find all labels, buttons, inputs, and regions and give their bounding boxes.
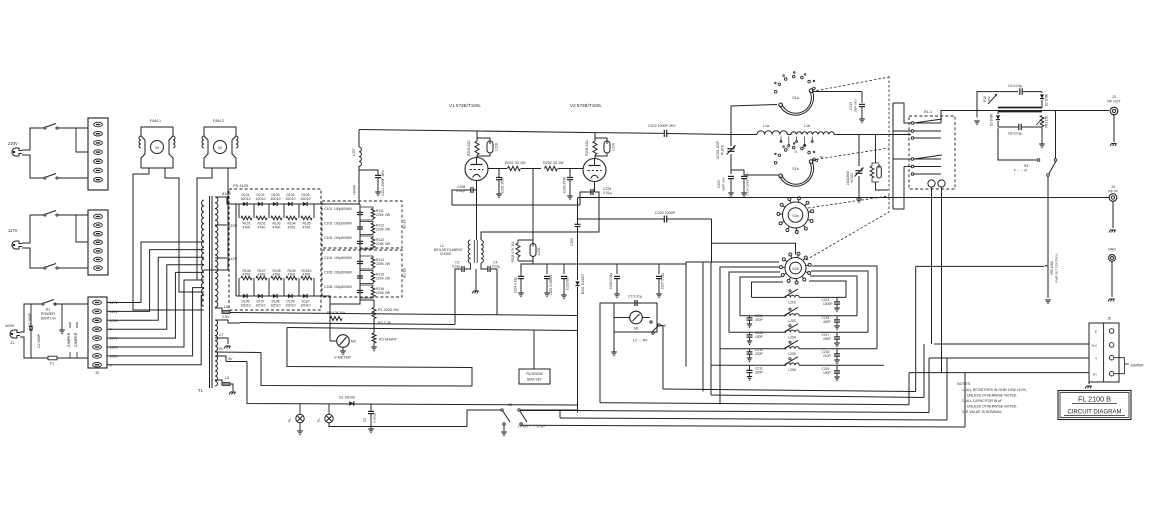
wire tank right loop 4	[812, 266, 877, 349]
svg-text:C204 0.01µ: C204 0.01µ	[514, 277, 518, 294]
svg-text:C205: C205	[570, 238, 574, 246]
svg-text:0.01µ: 0.01µ	[452, 265, 460, 269]
switch S 117V upper	[44, 211, 58, 217]
svg-text:100µ500WV: 100µ500WV	[334, 285, 353, 289]
tank capacitors right C213 C218 C217 C216 C219	[822, 297, 841, 380]
svg-text:GND: GND	[1108, 248, 1116, 252]
svg-text:FAN 1: FAN 1	[150, 118, 162, 123]
svg-text:C2 600P: C2 600P	[37, 333, 41, 348]
svg-text:200P: 200P	[755, 371, 764, 375]
svg-text:0.01µ: 0.01µ	[603, 191, 612, 195]
terminal strip J2	[88, 297, 107, 375]
svg-text:470K: 470K	[288, 273, 297, 277]
svg-text:117V: 117V	[8, 228, 18, 233]
J5 jumper bracket	[1114, 358, 1144, 374]
resistors R106-R110	[239, 269, 314, 296]
wire tank left loop 1	[752, 282, 784, 297]
T1 label	[198, 388, 204, 393]
svg-text:400P: 400P	[823, 320, 832, 324]
svg-text:S4: S4	[1024, 164, 1028, 168]
T1 HV bottom fuse 1A	[215, 305, 230, 314]
svg-text:0.005µ: 0.005µ	[373, 413, 377, 423]
svg-text:C7 0.01µ: C7 0.01µ	[628, 295, 642, 299]
svg-text:220K 2W: 220K 2W	[376, 291, 391, 295]
resistor R1 200 2W	[360, 300, 399, 319]
fuse F1	[44, 356, 88, 365]
choke L2 bifilar	[434, 240, 483, 263]
wire HT return run	[247, 362, 577, 406]
svg-text:JUMPER: JUMPER	[74, 332, 78, 347]
connector J5	[1089, 317, 1119, 383]
svg-text:C105: C105	[324, 271, 332, 275]
switch S4 F-R	[998, 111, 1057, 198]
220V AC plug	[8, 141, 22, 156]
svg-text:C223: C223	[717, 180, 721, 188]
svg-text:C210 60P: C210 60P	[566, 276, 570, 290]
ground meter	[611, 332, 617, 356]
svg-text:C224 1000P 5KV: C224 1000P 5KV	[746, 172, 750, 195]
terminal strip TB1	[88, 118, 108, 190]
svg-text:RF IN: RF IN	[1108, 190, 1118, 194]
svg-text:15: 15	[794, 150, 798, 154]
svg-text:V-METER: V-METER	[334, 356, 351, 360]
svg-text:J5: J5	[1107, 317, 1111, 321]
wire bias node	[521, 261, 580, 272]
capacitor C9 0.01u	[1008, 84, 1022, 95]
wire filament run A	[240, 323, 455, 325]
svg-text:S1: S1	[46, 308, 51, 312]
diode D2 1N60	[1040, 92, 1049, 108]
wire J5 pin4	[929, 357, 1089, 359]
switch S1a	[774, 72, 815, 116]
svg-text:JUMPER: JUMPER	[1130, 364, 1144, 368]
wire rail A	[663, 266, 1044, 391]
svg-text:S2a: S2a	[792, 214, 798, 218]
wire J5 RY	[909, 372, 1089, 374]
svg-text:J4: J4	[1111, 185, 1115, 189]
svg-text:OPEN ←→ STBY: OPEN ←→ STBY	[518, 425, 546, 429]
svg-text:R4 300ΩW: R4 300ΩW	[526, 372, 543, 376]
svg-text:L206: L206	[788, 368, 796, 372]
switch S1b	[774, 143, 815, 187]
svg-text:SWITCH: SWITCH	[41, 317, 56, 321]
wire heater loop	[261, 328, 577, 387]
svg-text:BU-1B: BU-1B	[403, 268, 407, 277]
title box	[1058, 391, 1131, 420]
svg-text:C8 0.01µ: C8 0.01µ	[1008, 132, 1022, 136]
svg-text:10D10: 10D10	[271, 304, 281, 308]
svg-text:R2 2.2K: R2 2.2K	[378, 321, 392, 325]
svg-text:10D10: 10D10	[286, 197, 296, 201]
capacitor bank box lower	[322, 250, 407, 297]
svg-text:220P: 220P	[755, 352, 764, 356]
mechanical link dashed	[806, 76, 889, 260]
svg-text:C222 1000P 3KV: C222 1000P 3KV	[648, 124, 676, 128]
capacitor C204 0.01u	[514, 272, 525, 297]
wire tank left loop 2	[740, 277, 781, 316]
resistor R205 22ohm	[467, 131, 479, 158]
svg-text:L208: L208	[495, 143, 499, 151]
svg-text:R3 SHUNT: R3 SHUNT	[379, 338, 398, 342]
svg-text:D1 10D43: D1 10D43	[339, 396, 355, 400]
wire staircase J2 to T1 primary	[107, 242, 204, 365]
svg-text:L204: L204	[788, 335, 796, 339]
svg-text:470K: 470K	[273, 226, 282, 230]
wire tank left outer	[703, 262, 711, 392]
svg-text:3. R VALUE IS NOMINAL.: 3. R VALUE IS NOMINAL.	[962, 410, 1003, 414]
capacitor C sense plate	[812, 92, 865, 123]
capacitor C4 0.01u	[481, 261, 500, 273]
svg-text:UNLESS OTHERWISE NOTED.: UNLESS OTHERWISE NOTED.	[967, 405, 1017, 409]
capacitors C101-C103	[324, 206, 363, 249]
svg-text:810V: 810V	[222, 191, 231, 196]
capacitor C225 0.01u	[481, 182, 612, 241]
svg-text:10D10: 10D10	[286, 304, 296, 308]
resistor R202 33 1W	[543, 161, 583, 171]
coil L1b	[787, 124, 859, 135]
svg-text:100µ500WV: 100µ500WV	[334, 222, 353, 226]
svg-text:JUMPER: JUMPER	[67, 332, 71, 347]
svg-text:470K: 470K	[258, 226, 267, 230]
T1 tap 412V	[215, 256, 237, 261]
relay RL-1 contacts	[911, 119, 942, 175]
wire rail D	[576, 358, 929, 413]
svg-text:0.01µ: 0.01µ	[492, 265, 500, 269]
diode D3 1N60	[990, 112, 1001, 128]
resistors R101-R105	[239, 204, 314, 230]
svg-text:470K: 470K	[243, 226, 252, 230]
resistor R203 4.7K 1W	[511, 240, 520, 262]
svg-text:10D10: 10D10	[271, 197, 281, 201]
rectifier module PS-1135 box	[229, 183, 321, 310]
svg-text:F1: F1	[50, 362, 54, 366]
svg-text:220K 2W: 220K 2W	[376, 242, 391, 246]
wire tank right loop 2	[810, 276, 857, 316]
svg-text:T1: T1	[198, 388, 204, 393]
svg-text:C203 200P: C203 200P	[563, 176, 567, 193]
svg-text:POWER: POWER	[41, 312, 56, 316]
resistors R111-R113	[360, 207, 391, 249]
svg-text:2. ALL CAPACITOR IN µF: 2. ALL CAPACITOR IN µF	[962, 399, 1002, 403]
coil taps	[780, 137, 813, 154]
wire coupler top	[977, 92, 1042, 111]
svg-text:S2b: S2b	[792, 267, 798, 271]
svg-text:10D10: 10D10	[256, 197, 266, 201]
capacitor C7 0.01u	[614, 295, 657, 307]
svg-text:PLATE: PLATE	[721, 145, 725, 155]
svg-text:220K 2W: 220K 2W	[376, 213, 391, 217]
svg-text:100V: 100V	[5, 323, 15, 328]
svg-text:L1a: L1a	[763, 124, 769, 128]
wire tank right to rail	[884, 365, 921, 391]
svg-text:PL: PL	[288, 418, 292, 422]
connector J4 RF IN	[1108, 185, 1118, 233]
svg-text:L205: L205	[788, 352, 796, 356]
svg-text:10D10: 10D10	[256, 304, 266, 308]
wire fan1 leads	[133, 168, 204, 310]
svg-text:220V: 220V	[8, 141, 18, 146]
T1 CT ground	[215, 338, 261, 353]
svg-text:1A: 1A	[224, 305, 229, 309]
capacitor C223 500P 5KV	[717, 176, 734, 196]
svg-text:C206 0.01µ: C206 0.01µ	[609, 273, 613, 290]
svg-text:150: 150	[987, 96, 991, 101]
svg-text:C213: C213	[849, 102, 853, 110]
svg-text:LC ⇔ RF: LC ⇔ RF	[633, 339, 648, 343]
capacitor C210 60P	[561, 264, 570, 299]
wire fan2 leads	[197, 168, 228, 280]
diode D201 label	[581, 274, 585, 295]
svg-text:S1b: S1b	[792, 167, 798, 171]
lamp PL2	[317, 414, 333, 422]
svg-text:M1: M1	[634, 327, 639, 331]
inductor L208	[477, 138, 499, 156]
wire filament run B	[230, 269, 577, 316]
wire rail E	[560, 358, 947, 420]
coil L1a	[757, 124, 787, 135]
svg-text:E: E	[1095, 330, 1097, 334]
svg-text:FL 2100 B: FL 2100 B	[1078, 395, 1111, 404]
resistor R9 12K 5%	[327, 311, 346, 321]
tank coils L202-L206 with shorting switches	[711, 289, 884, 372]
switch S2b	[779, 252, 811, 284]
capacitor C5	[363, 404, 377, 433]
resistor R4 300 BIAS SET box	[519, 331, 550, 385]
svg-text:BIAS SET: BIAS SET	[527, 378, 542, 382]
wire tank left loop 5	[686, 262, 779, 365]
wire 117V loop	[22, 215, 88, 268]
svg-text:R203 4.7K 1W: R203 4.7K 1W	[511, 242, 515, 263]
svg-text:100µ500WV: 100µ500WV	[334, 236, 353, 240]
resistor R201 33 1W	[488, 161, 541, 171]
wire relay to RF out	[941, 111, 1109, 124]
wire power entry	[20, 304, 44, 358]
wire meter to bus	[600, 303, 663, 403]
svg-text:C207 0.01µ: C207 0.01µ	[661, 273, 665, 290]
transformer T1 HV secondary	[215, 191, 236, 307]
tube V2 572B/T160L	[570, 103, 606, 182]
svg-text:100µ500WV: 100µ500WV	[334, 256, 353, 260]
svg-text:5V: 5V	[228, 357, 233, 361]
svg-text:VR1 150: VR1 150	[1045, 116, 1049, 129]
power switch S1	[41, 300, 57, 321]
svg-text:1. ALL RESISTORS IN OHM 1/2W ±: 1. ALL RESISTORS IN OHM 1/2W ±10%,	[962, 388, 1027, 392]
inductor L201	[518, 205, 541, 261]
svg-text:10D10: 10D10	[241, 304, 251, 308]
svg-text:L202: L202	[788, 300, 796, 304]
inductor L209	[595, 138, 616, 156]
capacitor C220 1000P	[578, 211, 796, 262]
wire RF in line	[578, 197, 1109, 199]
svg-text:10D10: 10D10	[301, 197, 311, 201]
svg-text:CIRCUIT DIAGRAM: CIRCUIT DIAGRAM	[1068, 410, 1122, 416]
svg-text:V1 572B/T160L: V1 572B/T160L	[449, 103, 481, 108]
diode D201 1N4007	[575, 264, 579, 413]
wire tank left loop 3	[729, 272, 780, 332]
svg-text:R1 200Ω 2W: R1 200Ω 2W	[378, 308, 399, 312]
wire J5 ALC	[934, 343, 1089, 345]
svg-text:VC201 100P: VC201 100P	[716, 141, 720, 159]
ground power switch	[55, 304, 88, 334]
capacitor C207 0.01u	[656, 264, 665, 298]
ground coupler left	[974, 111, 980, 125]
meter M1 box	[614, 303, 657, 332]
svg-text:PS-1135: PS-1135	[233, 183, 248, 188]
svg-text:D2 1N60: D2 1N60	[1045, 93, 1049, 106]
variable capacitor VC201 PLATE	[716, 135, 736, 175]
potentiometer VR5 100K PWR SET	[1044, 198, 1059, 304]
capacitor C209 2x25WV	[544, 264, 553, 297]
svg-text:RF OUT: RF OUT	[1107, 100, 1121, 104]
tank capacitors left C214 C215 C212 C211	[747, 314, 764, 380]
meter M2 V-METER	[330, 335, 356, 360]
svg-text:100µ500WV: 100µ500WV	[334, 271, 353, 275]
wire rail C	[600, 349, 909, 405]
svg-text:D201 1N4007: D201 1N4007	[581, 274, 585, 295]
svg-text:ALC: ALC	[1092, 344, 1099, 348]
switch S2a	[777, 197, 814, 234]
suppressor R L parallel	[859, 135, 911, 191]
connector J3 RF OUT	[1107, 95, 1121, 146]
resistor R3 SHUNT	[360, 330, 398, 351]
wire 220V loop	[22, 128, 88, 178]
wire S1b arm	[744, 155, 824, 175]
svg-text:470K: 470K	[273, 273, 282, 277]
variable arrow R10	[983, 94, 997, 104]
capacitor C8 0.01u	[998, 124, 1042, 136]
relay RL-1 coil	[928, 180, 945, 187]
svg-text:470K: 470K	[303, 273, 312, 277]
wire shunt row	[330, 300, 360, 341]
svg-text:L1b: L1b	[804, 124, 810, 128]
capacitor bank box upper	[322, 201, 407, 248]
wire cathode drive vertical	[685, 262, 687, 367]
wire relay coil leads	[932, 187, 942, 373]
resistors R114-R116	[360, 256, 391, 298]
wire tank right loop 1	[809, 281, 846, 297]
svg-text:470K: 470K	[303, 226, 312, 230]
svg-text:C201 200P: C201 200P	[501, 176, 505, 193]
wire plate to tank	[731, 105, 777, 135]
100V AC plug J1	[5, 323, 20, 345]
fan FAN 2	[202, 118, 238, 168]
svg-text:500P 5KV: 500P 5KV	[722, 177, 726, 190]
meter switch label	[633, 339, 648, 343]
svg-text:C5: C5	[363, 418, 367, 422]
T1 tap 620V	[215, 223, 237, 228]
capacitor C205 coupling	[570, 198, 581, 265]
svg-text:L201: L201	[537, 247, 541, 255]
wire J5 E ground	[1083, 331, 1092, 389]
capacitors C104-C106	[324, 255, 363, 298]
svg-text:C104: C104	[324, 256, 332, 260]
svg-text:+844V: +844V	[353, 184, 357, 195]
svg-text:C221 2000P 3KV: C221 2000P 3KV	[381, 169, 385, 195]
svg-text:VC202: VC202	[850, 173, 854, 183]
svg-text:L203: L203	[788, 319, 796, 323]
capacitor C222 1000P 3KV	[648, 124, 731, 137]
svg-text:220K 2W: 220K 2W	[376, 228, 391, 232]
svg-text:R202 33 1W: R202 33 1W	[543, 161, 564, 165]
svg-text:470K: 470K	[243, 273, 252, 277]
terminal strip TB2	[88, 210, 108, 275]
chassis filament CT	[472, 269, 479, 294]
svg-text:CHOKE: CHOKE	[440, 252, 451, 256]
svg-text:RY: RY	[1093, 373, 1097, 377]
coupler strip	[998, 108, 1042, 112]
diodes D101-D105	[236, 193, 314, 206]
svg-text:S1a: S1a	[792, 96, 798, 100]
switch S3 OPEN STBY	[501, 403, 577, 436]
wire B+ top bus	[359, 130, 664, 134]
svg-text:10D10: 10D10	[301, 304, 311, 308]
wire relay feeds	[893, 103, 912, 209]
svg-text:470K: 470K	[258, 273, 267, 277]
svg-text:J3: J3	[1112, 95, 1116, 99]
capacitor C201 200P	[496, 169, 505, 198]
svg-text:RL: RL	[219, 347, 224, 351]
svg-text:C101: C101	[324, 207, 332, 211]
svg-text:C102: C102	[324, 222, 332, 226]
svg-text:LOADING: LOADING	[846, 170, 850, 185]
svg-text:C106: C106	[324, 285, 332, 289]
svg-text:V2 572B/T160L: V2 572B/T160L	[570, 103, 602, 108]
jumper text	[67, 322, 78, 358]
J5 pin labels	[1092, 330, 1099, 377]
capacitor C224 1000P 5KV	[731, 170, 750, 197]
wire rail F	[521, 373, 965, 427]
wire PS-1135 rails	[235, 204, 237, 296]
capacitor C206 0.01u	[609, 264, 620, 298]
capacitor C203 200P	[563, 169, 574, 200]
wire lamp row	[300, 404, 501, 427]
wire HV bus vertical	[359, 204, 361, 300]
svg-text:S3: S3	[508, 403, 512, 407]
capacitor C221 2000P 3KV	[359, 169, 385, 195]
wire tank left loop 4	[720, 267, 779, 349]
svg-text:10D10: 10D10	[241, 197, 251, 201]
svg-text:250P: 250P	[823, 337, 832, 341]
svg-text:C103: C103	[324, 236, 332, 240]
transformer T1 primary winding	[202, 196, 212, 388]
wire rail B	[711, 344, 924, 398]
capacitor C2 600P	[37, 333, 41, 348]
svg-text:RL-1: RL-1	[924, 110, 932, 114]
svg-text:L209: L209	[612, 143, 616, 151]
svg-text:220K 2W: 220K 2W	[376, 262, 391, 266]
lamp PL1	[288, 414, 304, 434]
wire tank right loop 3	[811, 271, 868, 332]
svg-text:R201 33 1W: R201 33 1W	[505, 161, 526, 165]
svg-text:M: M	[155, 145, 158, 150]
svg-text:2.5V: 2.5V	[222, 315, 230, 319]
svg-text:470K: 470K	[288, 226, 297, 230]
svg-text:C209 2×25WV: C209 2×25WV	[549, 274, 553, 296]
choke L207	[352, 130, 361, 205]
transformer T1 filament winding 2.5V	[215, 315, 240, 356]
svg-text:150P: 150P	[755, 335, 764, 339]
switch meter select	[650, 321, 666, 334]
svg-text:C220 1000P: C220 1000P	[655, 211, 676, 215]
117V AC plug	[8, 228, 22, 249]
svg-text:100P 5KV: 100P 5KV	[854, 99, 858, 112]
diode D1 10D43	[339, 396, 355, 406]
wire grid junction	[452, 169, 580, 206]
J2 terminal labels	[110, 301, 119, 367]
svg-text:BU-1A: BU-1A	[403, 218, 407, 228]
switch S 220V upper	[44, 124, 58, 130]
svg-text:UNLESS OTHERWISE NOTED.: UNLESS OTHERWISE NOTED.	[967, 394, 1017, 398]
